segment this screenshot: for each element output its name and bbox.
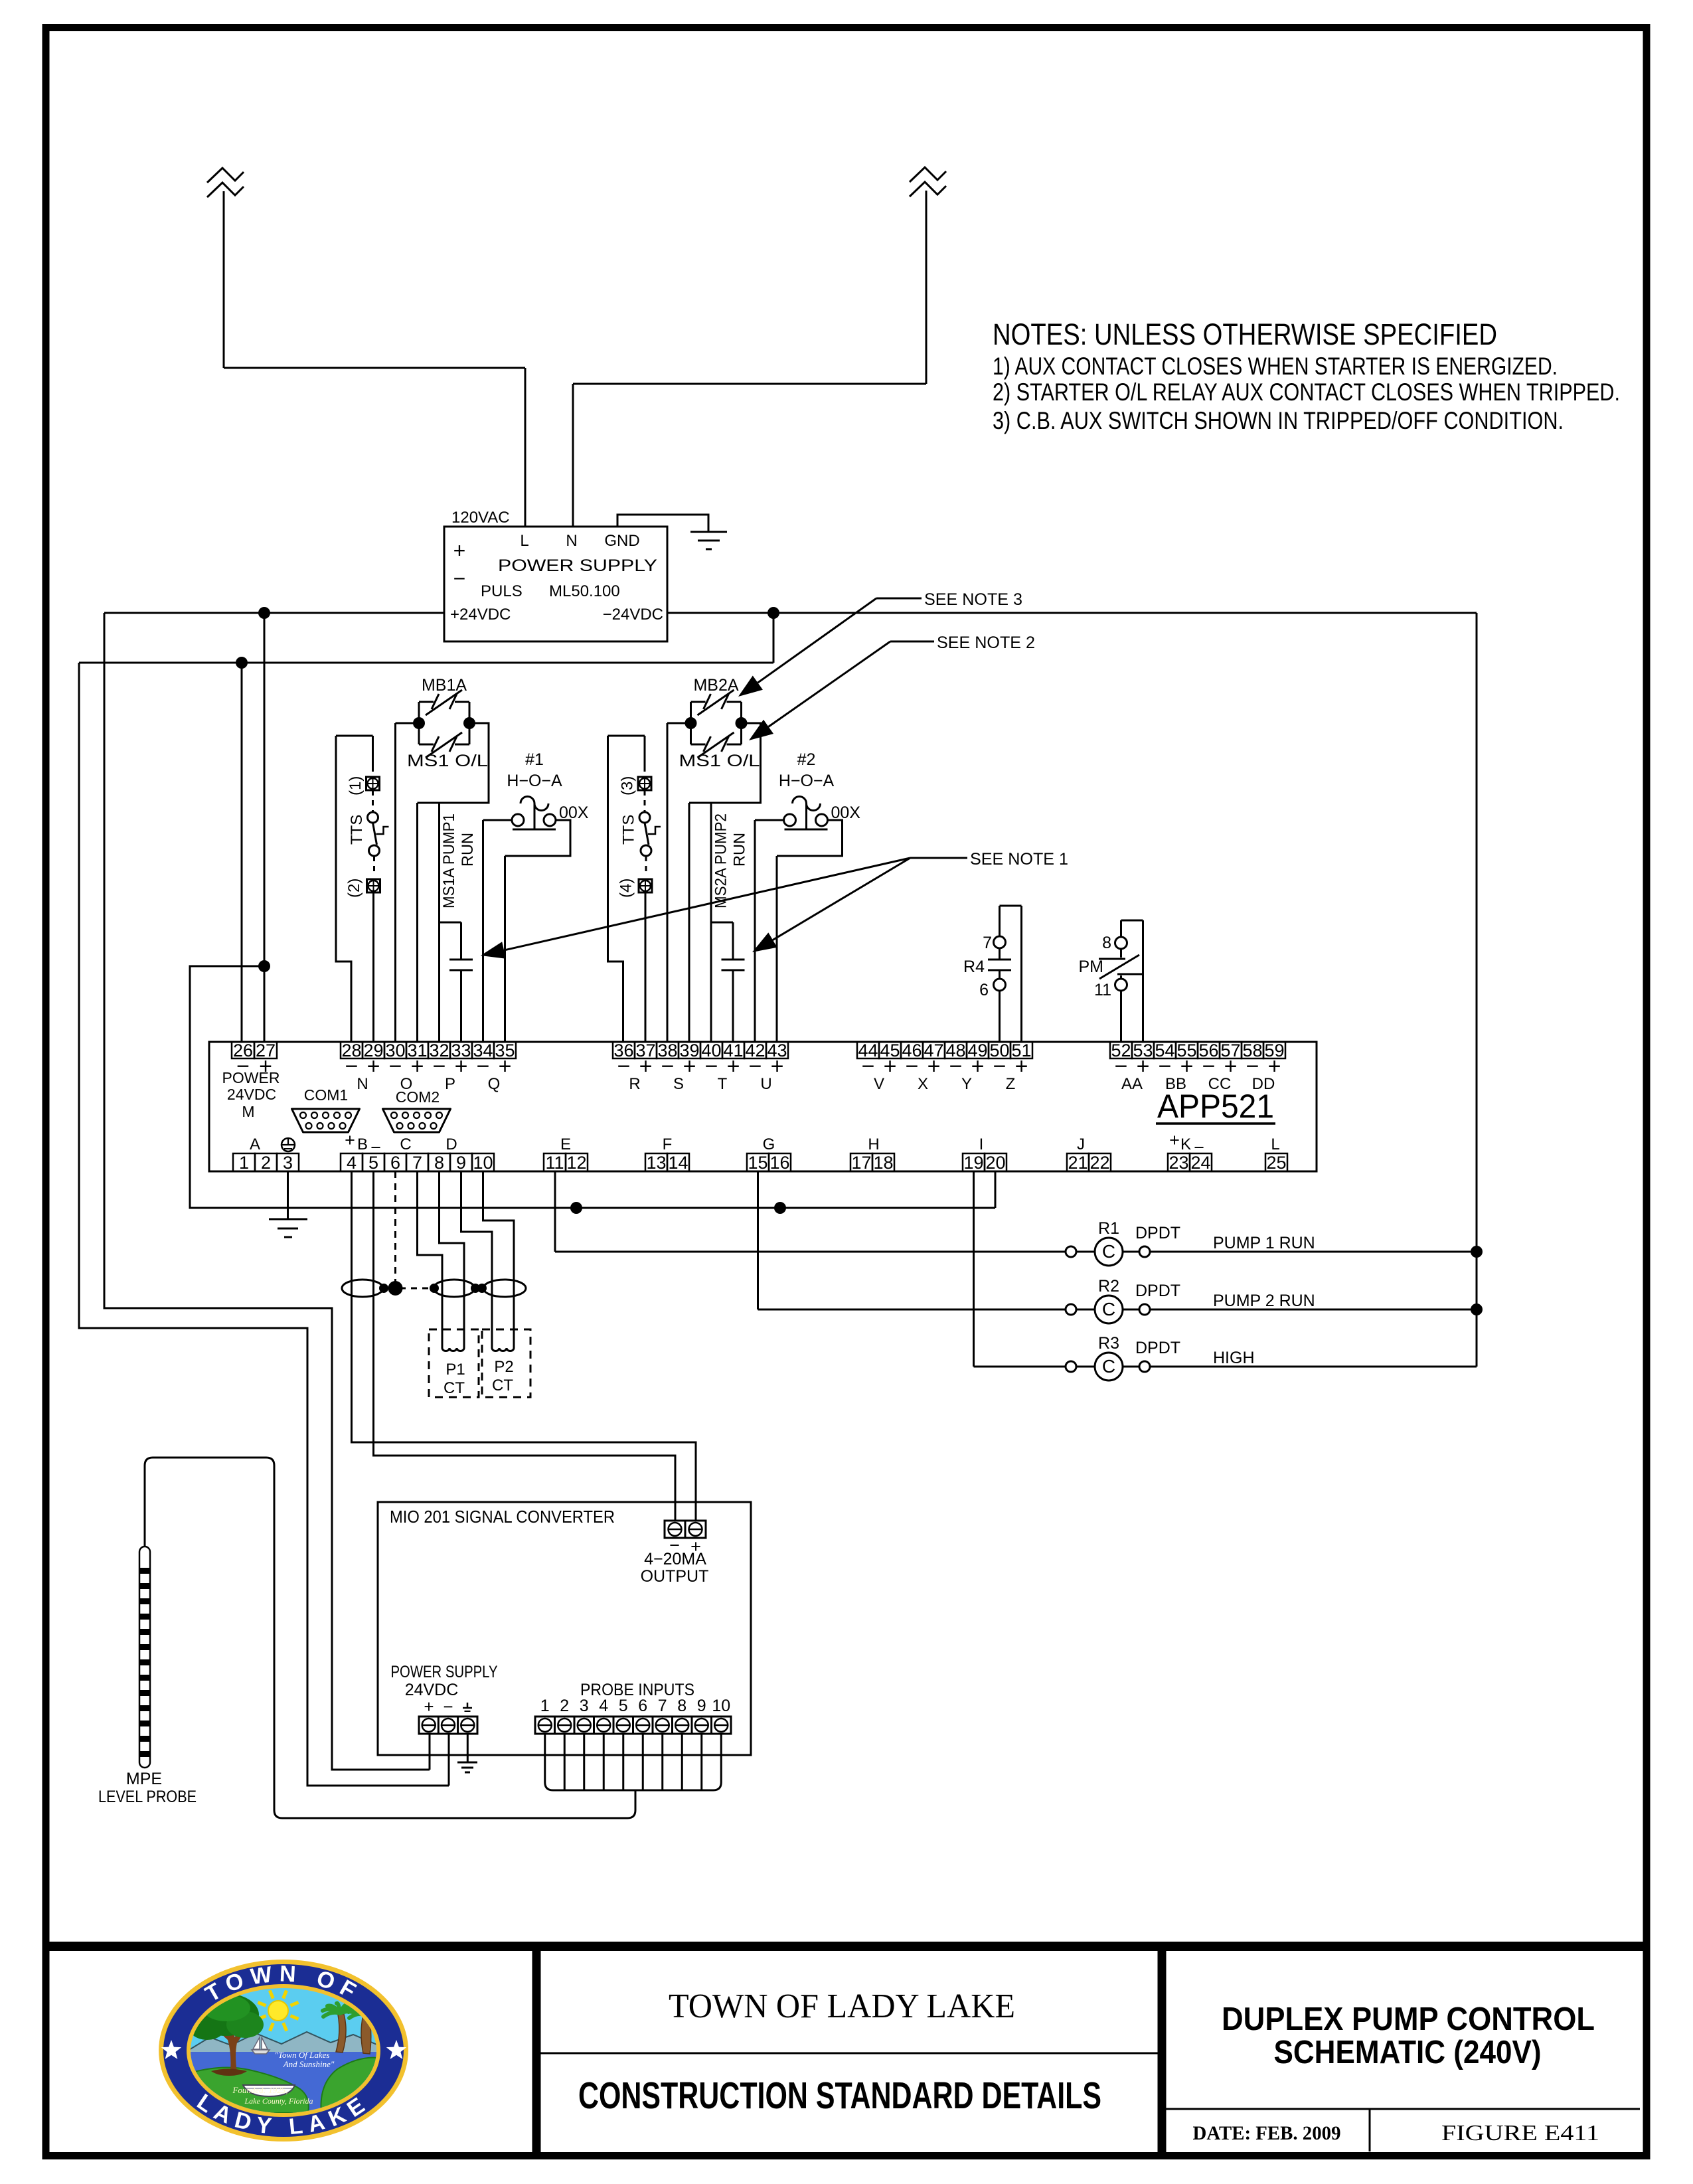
svg-text:22: 22 [1089, 1153, 1109, 1173]
svg-text:PUMP 1 RUN: PUMP 1 RUN [1213, 1234, 1315, 1252]
svg-text:MIO 201 SIGNAL CONVERTER: MIO 201 SIGNAL CONVERTER [390, 1507, 615, 1527]
svg-text:14: 14 [668, 1153, 688, 1173]
svg-text:Q: Q [488, 1075, 501, 1093]
svg-text:+: + [453, 539, 466, 562]
svg-text:+: + [424, 1697, 434, 1717]
svg-text:POWER SUPPLY: POWER SUPPLY [498, 556, 657, 575]
svg-text:24VDC: 24VDC [227, 1086, 276, 1103]
svg-text:8: 8 [434, 1153, 444, 1173]
svg-text:4: 4 [599, 1697, 608, 1715]
svg-text:N: N [357, 1075, 368, 1093]
svg-text:−: − [443, 1697, 453, 1717]
svg-text:+: + [1015, 1054, 1028, 1079]
svg-text:6: 6 [638, 1697, 647, 1715]
svg-text:H: H [868, 1135, 879, 1153]
svg-text:AA: AA [1121, 1075, 1143, 1093]
svg-text:1) AUX CONTACT CLOSES WHEN: 1) AUX CONTACT CLOSES WHEN STARTER IS EN… [993, 353, 1558, 380]
svg-text:X: X [918, 1075, 928, 1093]
svg-text:Z: Z [1006, 1075, 1016, 1093]
svg-text:+: + [499, 1054, 512, 1079]
svg-text:MB2A: MB2A [693, 676, 738, 695]
svg-text:11: 11 [545, 1153, 564, 1173]
svg-text:+: + [683, 1054, 696, 1079]
svg-text:2: 2 [560, 1697, 569, 1715]
svg-text:25: 25 [1266, 1153, 1286, 1173]
svg-text:+: + [771, 1054, 784, 1079]
svg-text:#1: #1 [525, 750, 544, 769]
svg-text:7: 7 [983, 934, 992, 952]
svg-text:MPE: MPE [126, 1770, 162, 1788]
svg-text:And Sunshine": And Sunshine" [283, 2059, 335, 2069]
svg-text:−: − [862, 1054, 875, 1079]
svg-text:DATE: FEB. 2009: DATE: FEB. 2009 [1193, 2122, 1341, 2144]
svg-text:CT: CT [443, 1379, 465, 1397]
svg-text:8: 8 [1102, 934, 1111, 952]
svg-text:5: 5 [368, 1153, 378, 1173]
svg-text:DPDT: DPDT [1135, 1224, 1180, 1242]
svg-text:Founded: 1925,: Founded: 1925, [232, 2085, 287, 2095]
svg-text:+: + [639, 1054, 653, 1079]
svg-text:R4: R4 [963, 958, 985, 976]
svg-text:+: + [367, 1054, 380, 1079]
svg-text:21: 21 [1068, 1153, 1088, 1173]
svg-text:C: C [1102, 1356, 1115, 1377]
svg-text:C: C [1102, 1241, 1115, 1262]
svg-text:18: 18 [873, 1153, 893, 1173]
svg-text:E: E [560, 1135, 571, 1153]
svg-text:Lake County, Florida: Lake County, Florida [244, 2096, 313, 2106]
svg-text:8: 8 [677, 1697, 686, 1715]
svg-text:3: 3 [283, 1153, 293, 1173]
svg-text:9: 9 [697, 1697, 706, 1715]
svg-text:10: 10 [712, 1697, 730, 1715]
svg-text:12: 12 [566, 1153, 586, 1173]
svg-text:−24VDC: −24VDC [603, 606, 663, 624]
svg-text:C: C [400, 1135, 411, 1153]
svg-text:7: 7 [412, 1153, 422, 1173]
svg-text:FIGURE E411: FIGURE E411 [1441, 2121, 1599, 2145]
svg-text:CT: CT [492, 1377, 513, 1394]
svg-text:PUMP 2 RUN: PUMP 2 RUN [1213, 1292, 1315, 1310]
svg-text:(1): (1) [347, 776, 364, 796]
svg-text:H−O−A: H−O−A [779, 772, 835, 790]
svg-text:R2: R2 [1098, 1277, 1119, 1296]
svg-text:"Town Of Lakes: "Town Of Lakes [275, 2050, 330, 2060]
svg-text:−: − [661, 1054, 675, 1079]
svg-text:−: − [906, 1054, 919, 1079]
svg-text:3: 3 [580, 1697, 589, 1715]
svg-text:R: R [629, 1075, 640, 1093]
svg-text:+: + [884, 1054, 897, 1079]
svg-text:PM: PM [1079, 958, 1104, 976]
svg-text:1: 1 [239, 1153, 249, 1173]
svg-text:4−20MA: 4−20MA [644, 1550, 706, 1568]
svg-text:19: 19 [963, 1153, 983, 1173]
svg-text:5: 5 [619, 1697, 628, 1715]
svg-text:SEE NOTE 2: SEE NOTE 2 [937, 633, 1035, 652]
svg-text:HIGH: HIGH [1213, 1349, 1255, 1367]
svg-text:GND: GND [604, 532, 639, 550]
svg-text:R1: R1 [1098, 1219, 1119, 1238]
svg-text:SEE NOTE 1: SEE NOTE 1 [970, 850, 1068, 869]
svg-text:+: + [927, 1054, 941, 1079]
svg-text:L: L [1271, 1135, 1279, 1153]
svg-text:4: 4 [347, 1153, 357, 1173]
svg-text:SCHEMATIC (240V): SCHEMATIC (240V) [1274, 2035, 1542, 2070]
svg-text:7: 7 [658, 1697, 667, 1715]
svg-text:−: − [949, 1054, 963, 1079]
svg-text:13: 13 [646, 1153, 666, 1173]
svg-text:A: A [250, 1135, 260, 1153]
svg-text:CONSTRUCTION STANDARD DETAILS: CONSTRUCTION STANDARD DETAILS [578, 2074, 1101, 2117]
svg-text:COM1: COM1 [304, 1086, 348, 1104]
svg-text:−: − [433, 1054, 446, 1079]
svg-text:SEE NOTE 3: SEE NOTE 3 [924, 590, 1022, 609]
svg-text:(3): (3) [619, 776, 637, 796]
svg-text:15: 15 [748, 1153, 767, 1173]
svg-text:+: + [345, 1130, 355, 1150]
svg-text:P: P [445, 1075, 455, 1093]
svg-text:+: + [455, 1054, 468, 1079]
svg-text:3) C.B. AUX SWITCH SHOWN: 3) C.B. AUX SWITCH SHOWN IN TRIPPED/OFF … [993, 407, 1564, 434]
svg-text:−: − [705, 1054, 718, 1079]
svg-text:TTS: TTS [348, 815, 366, 845]
svg-text:10: 10 [473, 1153, 493, 1173]
svg-text:120VAC: 120VAC [451, 509, 510, 527]
svg-text:Y: Y [961, 1075, 972, 1093]
svg-text:MS1A PUMP1: MS1A PUMP1 [440, 813, 458, 908]
svg-text:L: L [520, 532, 528, 550]
svg-text:P2: P2 [494, 1358, 513, 1376]
svg-text:G: G [763, 1135, 775, 1153]
svg-text:17: 17 [851, 1153, 871, 1173]
svg-text:6: 6 [979, 981, 989, 999]
svg-text:24: 24 [1190, 1153, 1210, 1173]
svg-text:DPDT: DPDT [1135, 1282, 1180, 1300]
svg-text:NOTES: UNLESS OTHERWISE SPE: NOTES: UNLESS OTHERWISE SPECIFIED [993, 317, 1497, 351]
svg-text:R3: R3 [1098, 1334, 1119, 1353]
svg-text:T: T [718, 1075, 728, 1093]
svg-text:TOWN OF LADY LAKE: TOWN OF LADY LAKE [669, 1987, 1015, 2025]
svg-text:ML50.100: ML50.100 [549, 582, 620, 600]
svg-text:B: B [357, 1135, 368, 1153]
svg-text:DUPLEX PUMP CONTROL: DUPLEX PUMP CONTROL [1222, 2001, 1595, 2037]
svg-text:MS2A PUMP2: MS2A PUMP2 [712, 813, 730, 908]
svg-text:(2): (2) [345, 879, 363, 898]
svg-text:#2: #2 [797, 750, 816, 769]
svg-text:+: + [971, 1054, 985, 1079]
svg-text:COM2: COM2 [396, 1088, 440, 1106]
svg-text:RUN: RUN [731, 833, 749, 867]
svg-text:P1: P1 [445, 1361, 465, 1379]
svg-text:U: U [760, 1075, 771, 1093]
svg-text:16: 16 [769, 1153, 789, 1173]
svg-text:POWER SUPPLY: POWER SUPPLY [391, 1663, 498, 1681]
svg-text:D: D [445, 1135, 457, 1153]
svg-text:J: J [1077, 1135, 1085, 1153]
svg-text:6: 6 [390, 1153, 400, 1173]
svg-text:RUN: RUN [459, 833, 477, 867]
svg-text:M: M [242, 1103, 254, 1120]
svg-text:MS1 O/L: MS1 O/L [679, 752, 760, 770]
svg-text:DPDT: DPDT [1135, 1339, 1180, 1357]
svg-text:9: 9 [456, 1153, 466, 1173]
svg-text:N: N [566, 532, 577, 550]
svg-text:−: − [993, 1054, 1007, 1079]
svg-text:OUTPUT: OUTPUT [641, 1567, 709, 1586]
svg-text:+: + [1169, 1130, 1180, 1150]
svg-text:+: + [411, 1054, 424, 1079]
svg-text:MS1 O/L: MS1 O/L [407, 752, 488, 770]
svg-text:TTS: TTS [620, 815, 638, 845]
svg-text:2: 2 [261, 1153, 271, 1173]
svg-text:(4): (4) [617, 879, 635, 898]
svg-text:MB1A: MB1A [422, 676, 467, 695]
svg-text:LEVEL PROBE: LEVEL PROBE [98, 1788, 197, 1806]
svg-text:APP521: APP521 [1157, 1088, 1274, 1125]
svg-text:S: S [673, 1075, 684, 1093]
svg-text:C: C [1102, 1299, 1115, 1319]
svg-text:H−O−A: H−O−A [507, 772, 562, 790]
svg-text:PULS: PULS [481, 582, 523, 600]
svg-text:+: + [727, 1054, 740, 1079]
svg-text:F: F [663, 1135, 673, 1153]
svg-text:POWER: POWER [222, 1069, 280, 1086]
svg-text:V: V [874, 1075, 884, 1093]
svg-text:2) STARTER O/L RELAY AUX: 2) STARTER O/L RELAY AUX CONTACT CLOSES … [993, 378, 1620, 406]
svg-text:11: 11 [1094, 981, 1111, 999]
svg-text:+24VDC: +24VDC [450, 606, 511, 624]
svg-text:23: 23 [1169, 1153, 1188, 1173]
svg-text:K: K [1180, 1135, 1191, 1153]
svg-text:−: − [453, 566, 466, 590]
svg-text:20: 20 [985, 1153, 1005, 1173]
svg-text:1: 1 [540, 1697, 550, 1715]
svg-text:I: I [979, 1135, 984, 1153]
